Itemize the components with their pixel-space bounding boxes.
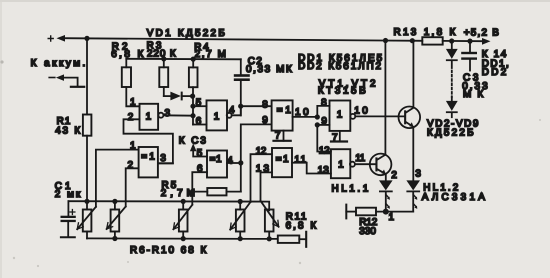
node gate4 out	[238, 160, 243, 165]
label gate4 pin4	[227, 155, 233, 166]
svg-text:=1: =1	[210, 154, 222, 165]
svg-text:9: 9	[262, 115, 268, 126]
svg-text:8: 8	[321, 98, 327, 109]
wire VT1 collector	[412, 41, 414, 108]
wire minus-terminal contact	[64, 78, 84, 87]
node R4 top	[191, 57, 196, 62]
diode chain VD2-VD9	[446, 41, 458, 117]
wire R4 node vertical	[192, 87, 194, 124]
label gate1 pin1	[130, 97, 136, 108]
wire gate4 pin6 down	[192, 172, 207, 204]
wire left bus upper	[86, 38, 88, 114]
svg-text:1: 1	[214, 111, 220, 122]
node bottom pot5	[267, 236, 272, 241]
wire VD1 to node	[183, 95, 193, 97]
resistor R11	[278, 212, 317, 247]
wire wiper rail	[68, 201, 269, 210]
svg-text:2: 2	[128, 112, 134, 123]
terminal arrow + battery	[48, 35, 65, 42]
op gate DD1.1	[140, 104, 164, 130]
svg-text:+5,2 В: +5,2 В	[464, 27, 500, 38]
wire gate6 out to VT1 base	[355, 115, 404, 117]
label gate7 pin11	[294, 154, 306, 165]
svg-text:5: 5	[196, 97, 202, 108]
svg-text:43 К: 43 К	[55, 125, 80, 136]
diode VD1 label	[147, 28, 225, 39]
op gate DD1.2	[207, 100, 232, 130]
svg-text:=1: =1	[276, 154, 289, 165]
label gate7 pin12	[256, 146, 267, 157]
label gate1 pin3	[165, 108, 171, 119]
wire gate2 out	[232, 106, 241, 115]
wire oscillator top rail	[126, 58, 241, 61]
ground gate6 pin7	[331, 131, 347, 144]
resistor R1	[55, 115, 91, 137]
wire gate6-in node to gate8 pin12	[317, 125, 331, 156]
wire pin8 to gate5	[241, 105, 272, 107]
label gate6 pin10	[354, 106, 368, 117]
label К 14 DD1 DD2	[482, 49, 509, 78]
wire gate7 pin12 to pot4 wiper	[251, 154, 273, 202]
diode VD1	[170, 92, 182, 101]
node wiper rail left bus	[84, 199, 89, 204]
op gate DD2.1	[139, 147, 158, 177]
transistor VT2	[370, 154, 392, 176]
node diode-R4	[190, 94, 195, 99]
svg-text:1: 1	[337, 109, 343, 120]
svg-text:4: 4	[227, 155, 233, 166]
svg-text:HL1.1: HL1.1	[332, 183, 369, 194]
svg-text:1: 1	[389, 212, 395, 223]
potentiometer R8	[173, 201, 192, 238]
node bottom pot2	[112, 236, 117, 241]
svg-text:330: 330	[359, 226, 376, 237]
svg-text:R13 1,8 К: R13 1,8 К	[394, 27, 456, 38]
wire gate6 pin9	[317, 116, 329, 127]
wire pin9 to gate5	[241, 124, 272, 162]
node bottom pot4	[238, 236, 243, 241]
wire R3 to VD1	[164, 87, 171, 96]
node wiper rail pot3	[181, 199, 186, 204]
svg-text:8: 8	[262, 100, 268, 111]
op gate DD2.2	[207, 151, 227, 178]
wire gate3 pin1 to pot1 wiper	[96, 150, 139, 207]
potentiometer R7	[107, 201, 126, 238]
svg-text:2,7 М: 2,7 М	[195, 49, 226, 60]
capacitor C1	[61, 201, 76, 237]
wire VT1 emitter to HL1.2	[413, 127, 421, 180]
potentiometer R10	[261, 201, 279, 239]
node C3 on rail	[467, 39, 472, 44]
node R5 left	[190, 189, 195, 194]
wire gate4 pin5 to КC3 arrow	[190, 143, 207, 156]
node VT2 collector on rail	[383, 38, 388, 43]
svg-text:13: 13	[318, 165, 330, 176]
label К C3	[179, 136, 207, 147]
wire gate8 out to VT2 base	[355, 163, 376, 165]
label gate1 pin2	[128, 112, 134, 123]
label VD2-VD9	[427, 119, 479, 139]
svg-text:0,33 МК: 0,33 МК	[246, 64, 292, 75]
svg-text:220 К: 220 К	[147, 48, 176, 59]
label HL1.1	[332, 183, 369, 194]
label +5,2 В	[464, 27, 500, 38]
op gate DD1.4	[330, 101, 356, 131]
svg-text:6: 6	[196, 116, 202, 127]
svg-text:12: 12	[319, 145, 330, 156]
node wiper rail pot4	[238, 199, 243, 204]
wire gate7 pin13 to pot5 wiper	[261, 172, 273, 200]
wire gate7 out to gate8 pin13	[292, 163, 331, 176]
svg-text:6,8 К: 6,8 К	[286, 221, 317, 232]
label gate8 pin11	[355, 153, 365, 164]
svg-text:11: 11	[294, 154, 306, 165]
label VT1 VT2	[318, 78, 376, 96]
label gate7 pin13	[256, 163, 270, 174]
svg-text:2 мк: 2 мк	[55, 189, 81, 200]
svg-text:5: 5	[197, 148, 203, 159]
svg-text:11: 11	[355, 153, 365, 164]
svg-text:DD2: DD2	[482, 67, 507, 78]
svg-text:6,8 К: 6,8 К	[111, 49, 143, 60]
node R3 top	[161, 56, 166, 61]
svg-text:1: 1	[146, 111, 152, 122]
resistor R4	[189, 42, 226, 87]
svg-text:12: 12	[256, 146, 267, 157]
label gate3 pin3	[160, 153, 166, 164]
wire R12 to LEDs	[376, 211, 413, 213]
potentiometer R6	[77, 201, 96, 238]
node VT1 collector on rail	[410, 38, 415, 43]
wire gate6 pin8	[317, 98, 329, 117]
svg-text:9: 9	[321, 116, 327, 127]
node gate2 pin5	[190, 104, 195, 109]
node wiper rail pot2	[112, 199, 117, 204]
svg-text:3: 3	[415, 169, 421, 180]
op gate DD1.3	[272, 100, 293, 130]
label gate5 pin8	[262, 100, 268, 111]
node VD2 chain on rail	[449, 38, 454, 43]
terminal arrow - battery	[49, 74, 64, 81]
wire node to R5 right	[240, 163, 242, 192]
wire gate3 out stub	[158, 162, 173, 164]
op gate DD2.3	[272, 148, 292, 177]
resistor R2	[111, 41, 143, 87]
label C3 value	[462, 72, 488, 99]
wire gate3 pin2 to pot2 wiper	[126, 168, 139, 206]
wire gate3 out to gate1 pin2	[124, 119, 173, 163]
svg-text:3: 3	[160, 153, 166, 164]
label gate4 pin5	[197, 148, 203, 159]
wire VT2 emitter to HL1.1	[386, 170, 397, 181]
node led common	[383, 209, 395, 223]
svg-text:2: 2	[391, 170, 397, 181]
svg-text:3: 3	[165, 108, 171, 119]
label К аккум.	[31, 58, 86, 69]
svg-text:7: 7	[275, 130, 281, 141]
led HL1.1	[379, 180, 393, 211]
capacitor C2	[234, 56, 292, 116]
arrow +5,2V output	[482, 38, 491, 45]
svg-text:К C3: К C3	[179, 136, 207, 147]
resistor R12	[346, 208, 377, 237]
label gate3 pin2	[128, 160, 134, 171]
label gate5 pin10	[295, 107, 309, 118]
wire pin6	[193, 116, 207, 127]
label DD1 DD2 types	[298, 53, 383, 72]
label gate5 pin9	[262, 115, 268, 126]
svg-text:7: 7	[332, 132, 338, 143]
node gate1 out joint	[190, 113, 195, 118]
capacitor C3	[461, 41, 477, 70]
wire gate1 out to node	[163, 114, 193, 116]
node gate6 in lower	[315, 122, 320, 127]
potentiometer R9	[230, 202, 250, 239]
led HL1.2	[406, 180, 420, 211]
svg-text:2,7М: 2,7М	[161, 188, 195, 199]
resistor R13	[394, 27, 456, 44]
wire gate4 out to node	[227, 162, 241, 164]
wire pin5	[193, 97, 207, 108]
wire left bus lower	[86, 136, 88, 202]
wire top +supply rail	[64, 38, 482, 41]
transistor VT1	[399, 107, 421, 129]
label gate4 pin6	[197, 164, 203, 175]
node bottom pot3	[181, 236, 186, 241]
svg-text:DD2 К561ЛП2: DD2 К561ЛП2	[298, 61, 381, 72]
wire gate5 out	[293, 116, 318, 118]
svg-text:1: 1	[338, 160, 344, 171]
op gate DD1.2b	[331, 149, 355, 178]
resistor R3	[147, 41, 176, 87]
wire R2 to gate1 pin1	[126, 87, 139, 106]
node gate6 in upper	[315, 114, 320, 119]
label gate2 pin4	[229, 105, 235, 116]
terminal R12 left	[345, 205, 347, 219]
label gate3 pin1	[130, 140, 136, 151]
label HL1.2	[422, 182, 486, 203]
resistor R5	[161, 180, 241, 199]
ground gate5 pin7	[274, 130, 291, 141]
label R6-R10	[130, 245, 207, 256]
node junction rail-left	[84, 36, 89, 41]
svg-text:VD1 КД522Б: VD1 КД522Б	[147, 28, 225, 39]
wire bottom rail	[87, 237, 277, 240]
svg-text:2: 2	[128, 160, 134, 171]
wire VT2 collector	[384, 41, 386, 155]
label C1	[55, 181, 81, 200]
svg-text:R6-R10 68 К: R6-R10 68 К	[130, 245, 207, 256]
node pin8 branch	[238, 104, 243, 109]
